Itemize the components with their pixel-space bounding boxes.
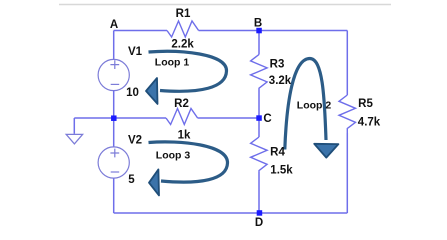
svg-text:5: 5 bbox=[128, 174, 135, 186]
node B junction square bbox=[256, 28, 262, 34]
loop 2 arrowhead bbox=[314, 144, 338, 158]
svg-text:V1: V1 bbox=[128, 46, 143, 58]
svg-text:1.5k: 1.5k bbox=[270, 165, 293, 177]
svg-text:1k: 1k bbox=[178, 129, 191, 141]
loop 1 arrow curve bbox=[149, 51, 227, 91]
loop 3 arrowhead bbox=[149, 169, 159, 195]
wire R1 to B bbox=[199, 30, 259, 32]
voltage source V2 bbox=[98, 147, 129, 178]
svg-text:Loop 3: Loop 3 bbox=[156, 150, 191, 162]
wire C to R4 bbox=[258, 118, 260, 137]
wire middle horizontal (ground to R2) bbox=[74, 117, 166, 119]
svg-text:4.7k: 4.7k bbox=[358, 117, 381, 129]
wire R2 to C bbox=[198, 117, 259, 119]
V1 minus sign bbox=[111, 83, 120, 85]
wire V2 to bottom-left corner bbox=[113, 179, 115, 214]
node C junction square bbox=[256, 115, 262, 121]
wire R4 to D bbox=[258, 172, 260, 213]
wire bottom (left corner to D) bbox=[114, 212, 259, 214]
svg-text:2.2k: 2.2k bbox=[171, 39, 194, 51]
resistor R3 bbox=[251, 55, 268, 90]
resistor R1 bbox=[167, 21, 199, 37]
wire bottom (D to right corner) bbox=[259, 212, 347, 214]
V2 minus sign bbox=[111, 171, 120, 173]
svg-text:Loop 2: Loop 2 bbox=[297, 100, 332, 112]
svg-text:D: D bbox=[255, 217, 263, 229]
svg-text:R2: R2 bbox=[174, 98, 189, 110]
wire right side top (corner to R5) bbox=[346, 31, 348, 96]
V1 plus sign bbox=[110, 60, 119, 69]
svg-text:Loop 1: Loop 1 bbox=[155, 57, 190, 69]
svg-text:3.2k: 3.2k bbox=[269, 75, 292, 87]
svg-text:R4: R4 bbox=[270, 147, 285, 159]
V2 plus sign bbox=[110, 149, 119, 158]
ground stem wire bbox=[73, 118, 75, 134]
resistor R2 bbox=[166, 109, 198, 125]
resistor R5 bbox=[339, 95, 356, 133]
svg-text:V2: V2 bbox=[128, 135, 142, 147]
wire left side (A down to V1) bbox=[113, 31, 115, 60]
ground symbol bbox=[66, 134, 82, 144]
voltage source V1 bbox=[98, 59, 129, 90]
svg-text:A: A bbox=[110, 19, 118, 31]
wire right side bottom (R5 to corner) bbox=[346, 133, 348, 213]
wire V1 to ground junction bbox=[113, 91, 115, 147]
loop 1 arrowhead bbox=[146, 78, 158, 104]
loop 2 arrow curve bbox=[285, 59, 326, 150]
svg-text:R3: R3 bbox=[270, 59, 285, 71]
node D junction square bbox=[257, 210, 263, 216]
svg-text:C: C bbox=[263, 113, 271, 125]
svg-text:R1: R1 bbox=[176, 8, 191, 20]
wire B to top-right corner bbox=[259, 30, 347, 32]
svg-text:B: B bbox=[254, 18, 262, 30]
svg-text:10: 10 bbox=[126, 87, 139, 99]
wire A to R1 (top left segment) bbox=[114, 30, 167, 32]
wire R3 to C bbox=[258, 90, 260, 119]
top faint rule line bbox=[59, 4, 391, 6]
wire B to R3 bbox=[258, 31, 260, 55]
ground junction square bbox=[111, 115, 117, 121]
loop 3 arrow curve bbox=[149, 142, 228, 182]
resistor R4 bbox=[251, 137, 268, 172]
svg-text:R5: R5 bbox=[358, 98, 373, 110]
